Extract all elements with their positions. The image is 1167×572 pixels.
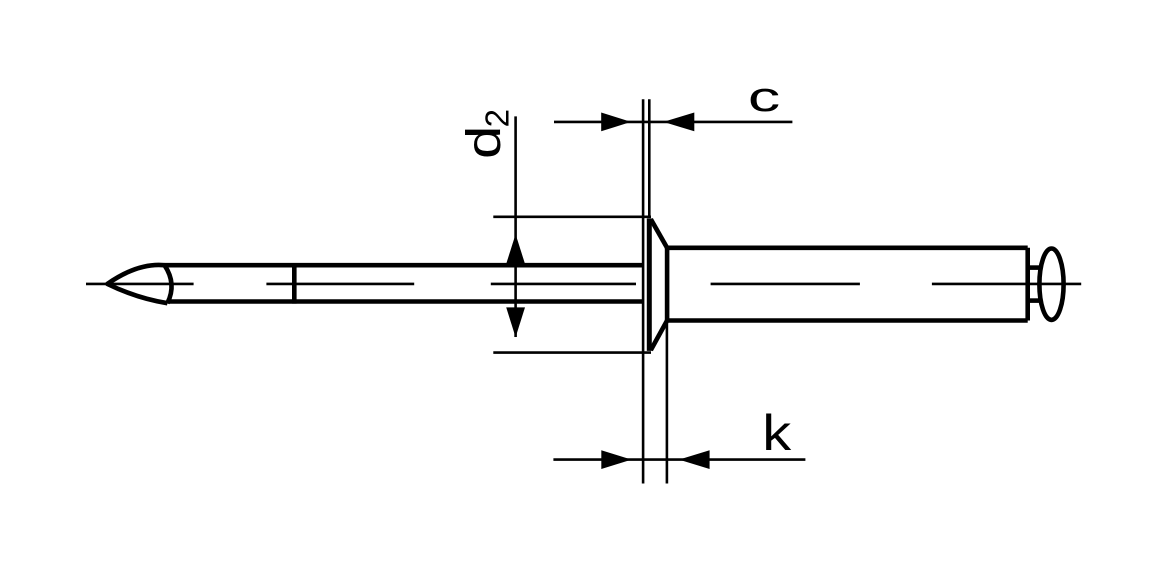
centerline dash 1 (through mandrel tip) (86, 283, 194, 286)
mandrel break tick (292, 263, 297, 303)
rivet head cone bottom (651, 321, 667, 351)
svg-text:c: c (748, 73, 780, 120)
c arrow right(pointing left) (663, 113, 694, 132)
svg-text:d: d (457, 126, 511, 159)
c arrow left(pointing right) (601, 113, 631, 132)
centerline dash 3 (491, 283, 636, 286)
d2 top tick (493, 216, 651, 219)
extension line A (head face plane, full) (642, 99, 645, 483)
mandrel stem stub bottom (1028, 298, 1040, 303)
svg-text:k: k (762, 405, 792, 460)
centerline dash 2 (266, 283, 414, 286)
centerline dash 4 (inside rivet body) (711, 283, 860, 286)
mandrel stem stub top (1028, 265, 1040, 270)
extension line B (head rim, upper) (648, 99, 651, 218)
d2 arrow down (506, 307, 525, 337)
d2 dimension line (514, 116, 517, 337)
d2 bottom tick (493, 351, 651, 354)
c dimension line (554, 121, 792, 124)
mandrel head ellipse (1039, 249, 1063, 320)
centerline dash 5 (through mandrel head) (932, 283, 1081, 286)
rivet body top edge (667, 246, 1028, 251)
d2 arrow up (506, 234, 525, 264)
mandrel tip base arc (165, 265, 172, 303)
rivet head cone top (651, 219, 667, 248)
rivet head face (647, 218, 652, 351)
extension line C (head-body junction, lower) (666, 321, 669, 484)
k dimension line (553, 458, 805, 461)
rivet head back edge (665, 248, 670, 321)
k arrow right(pointing left) (679, 450, 710, 469)
k arrow left(pointing right) (601, 450, 631, 469)
mandrel tip point curves (107, 265, 167, 303)
svg-text:2: 2 (479, 109, 516, 127)
mandrel shaft bottom edge (167, 299, 643, 304)
mandrel shaft top edge (165, 263, 644, 268)
rivet body bottom edge (667, 318, 1028, 323)
rivet body end face (1025, 248, 1030, 321)
